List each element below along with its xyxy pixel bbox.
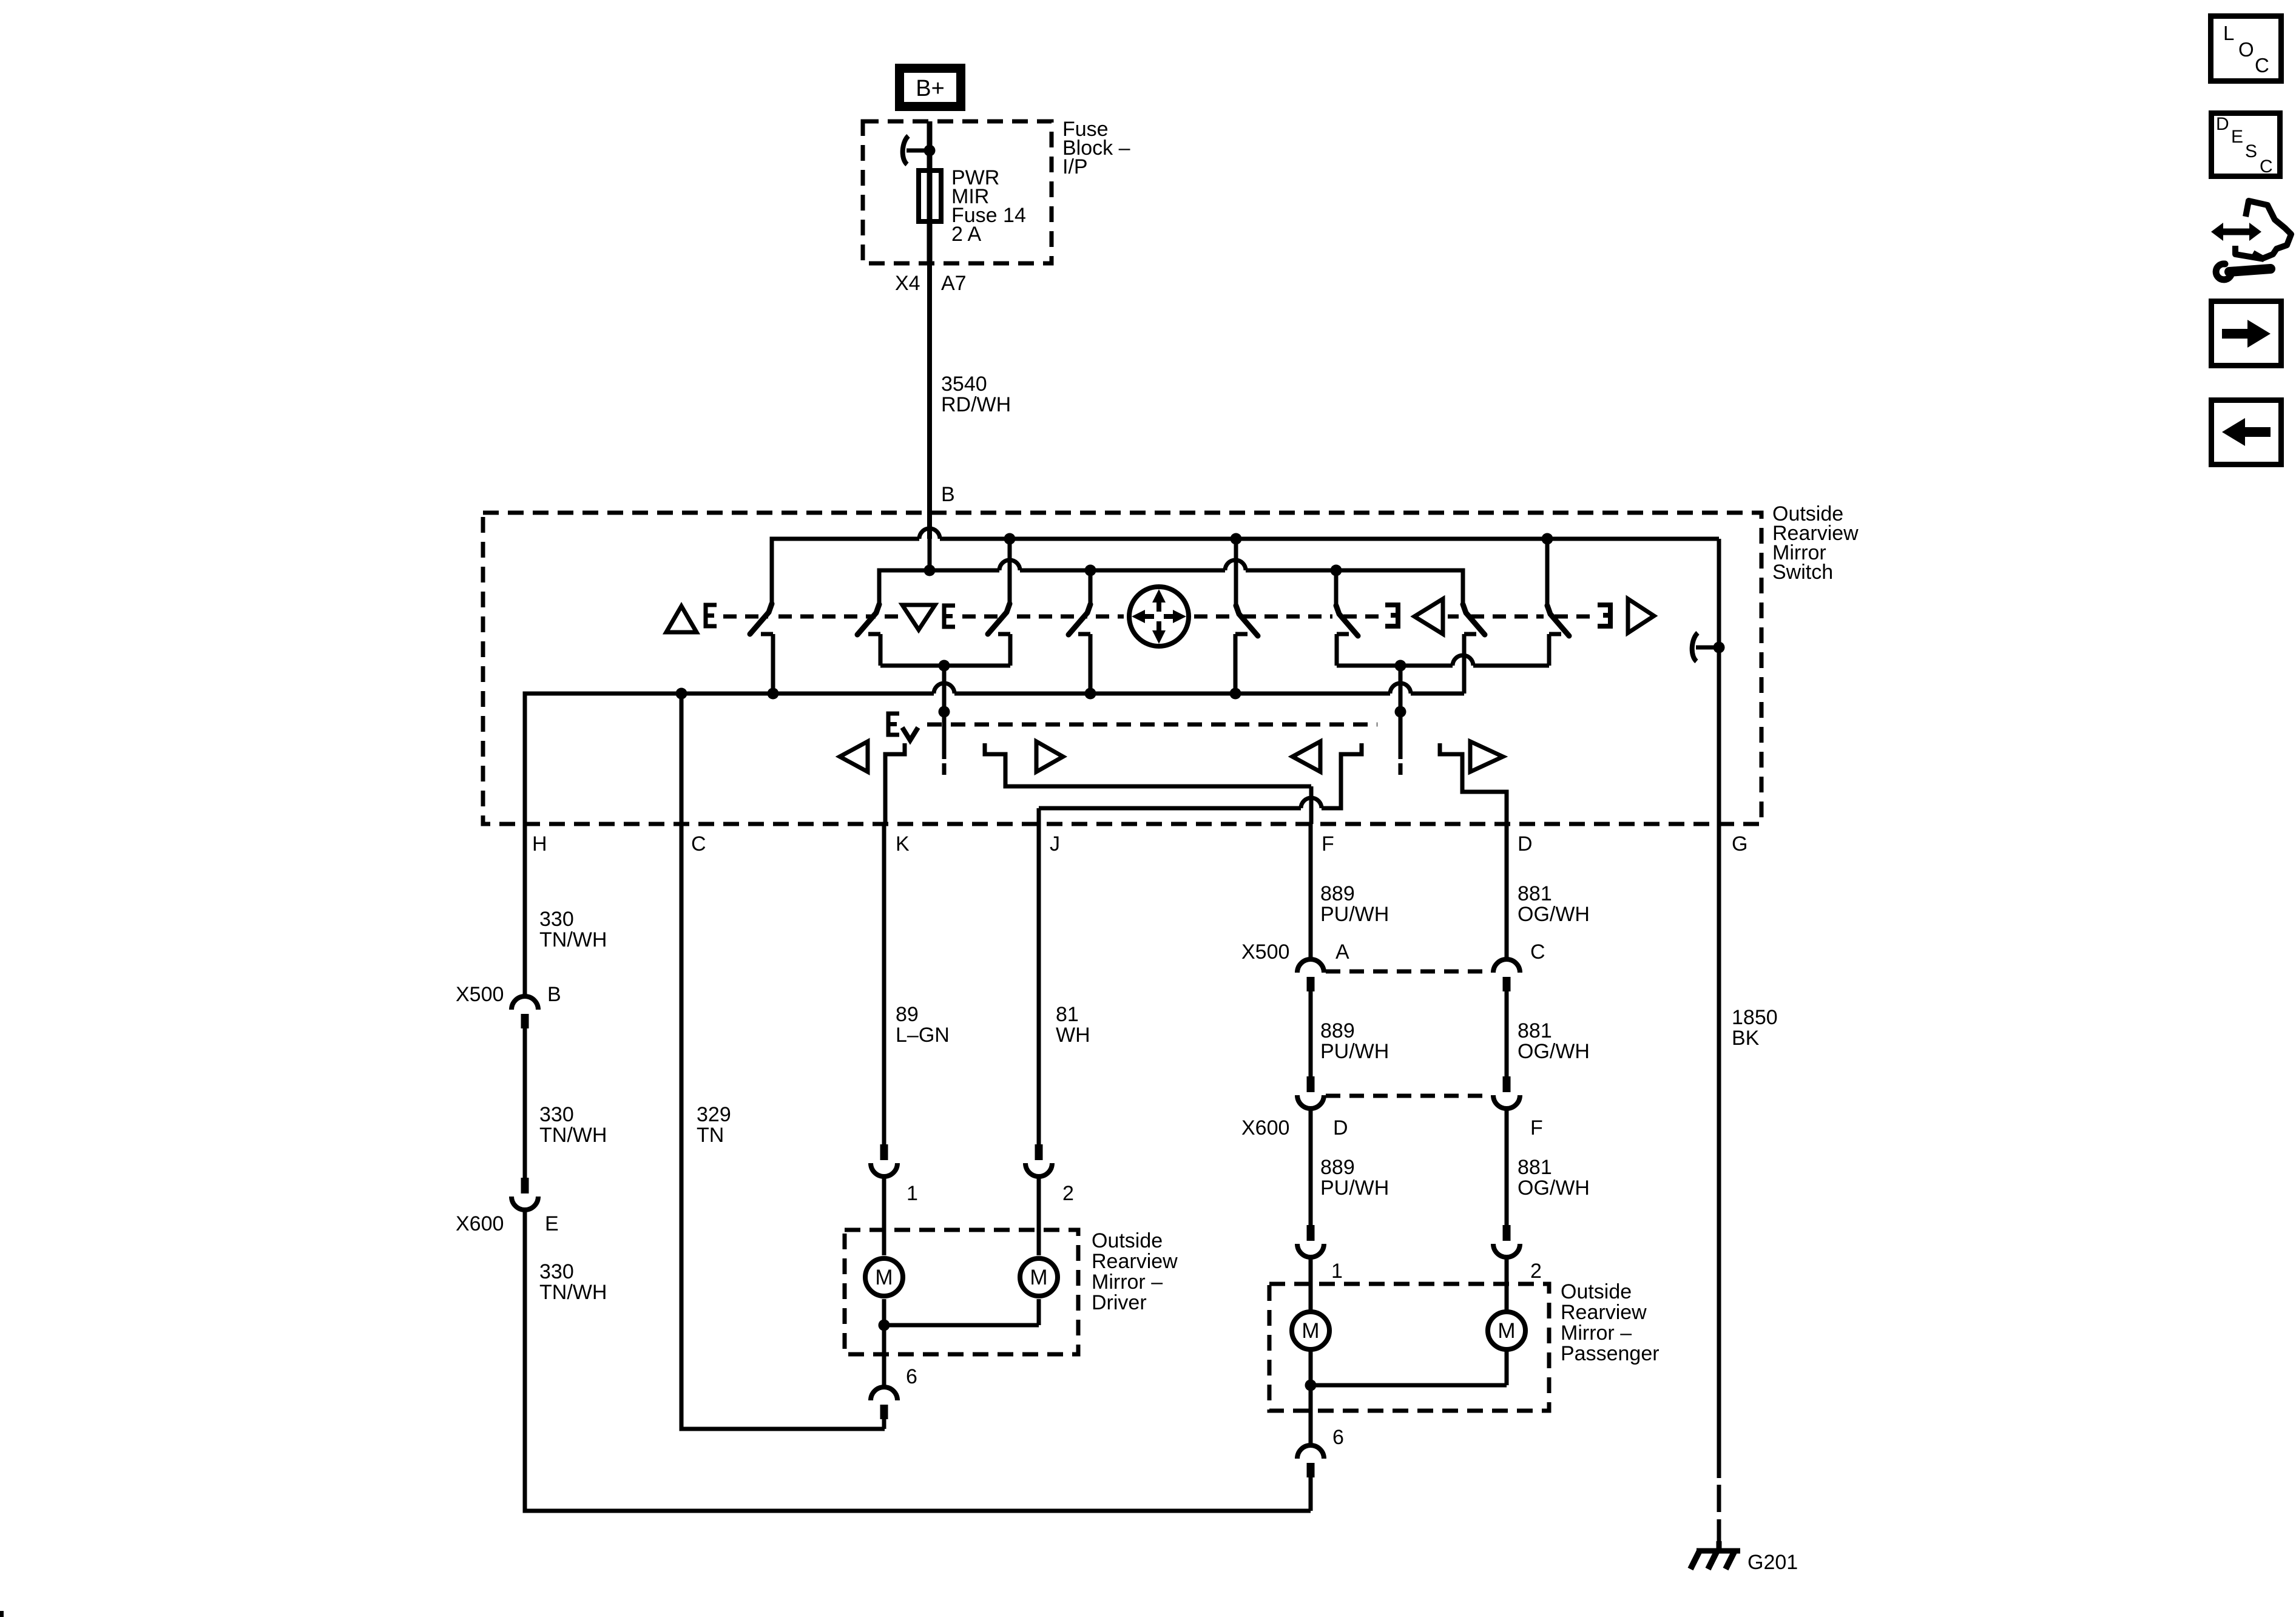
junction: B wire to second rail: [924, 539, 936, 576]
bottom rail wire: [525, 683, 1464, 824]
switch 3 (down group): [988, 604, 1010, 666]
connector X600 pin F: [1493, 1076, 1520, 1109]
passenger mirror connector pin 6: [1297, 1445, 1324, 1477]
connector X4 label: [895, 272, 920, 295]
svg-text:X600: X600: [1241, 1116, 1289, 1139]
pin C label: [1530, 940, 1545, 964]
wire to passenger motor 2: [1505, 1258, 1509, 1310]
svg-text:Rearview: Rearview: [1561, 1301, 1647, 1324]
pin 6 label (passenger): [1332, 1426, 1344, 1449]
X500 connector dashed link: [1326, 970, 1491, 974]
selector right-pair right contact to pin D: [1440, 743, 1507, 824]
driver mirror motor M1: [865, 1258, 903, 1296]
svg-text:TN/WH: TN/WH: [539, 1124, 607, 1147]
wire to driver mirror motor 2: [1037, 1177, 1041, 1255]
pin 1 label (passenger): [1331, 1260, 1343, 1283]
svg-text:WH: WH: [1056, 1024, 1090, 1047]
wire 1850 BK label: [1732, 1006, 1778, 1050]
switch 1 (up, left mirror vertical): [750, 604, 773, 694]
svg-text:PU/WH: PU/WH: [1320, 903, 1389, 926]
svg-text:B+: B+: [916, 76, 945, 101]
wire 3540 RD/WH label: [941, 373, 1011, 416]
wire pin6 passenger to 330 TN/WH: [1309, 1477, 1313, 1511]
svg-text:L–GN: L–GN: [896, 1024, 950, 1047]
driver mirror connector pin 1: [871, 1144, 897, 1176]
X600 label right: [1241, 1116, 1289, 1139]
wire 881 OG/WH label 3: [1518, 1156, 1590, 1200]
right actuator bracket: [1598, 605, 1610, 626]
svg-text:Switch: Switch: [1772, 561, 1833, 584]
svg-text:881: 881: [1518, 1156, 1552, 1179]
X500 label left: [456, 983, 504, 1006]
pin 2 label (driver): [1062, 1182, 1074, 1205]
switch box label: [1772, 502, 1859, 584]
svg-text:6: 6: [906, 1365, 917, 1388]
svg-text:G201: G201: [1747, 1551, 1798, 1574]
up actuator triangle: [666, 606, 697, 632]
svg-text:2: 2: [1530, 1260, 1542, 1283]
driver mirror connector pin 2: [1025, 1144, 1052, 1176]
wire 330 TN/WH lower: [525, 1210, 1311, 1511]
passenger mirror motor M1: [1292, 1312, 1329, 1349]
passenger mirror connector pin 1: [1297, 1225, 1324, 1257]
wire 89 L-GN label: [896, 1003, 950, 1047]
svg-text:Passenger: Passenger: [1561, 1342, 1660, 1365]
driver mirror pin 6 wire: [882, 1325, 886, 1386]
driver mirror motor M2: [1020, 1258, 1058, 1296]
svg-text:B: B: [941, 483, 955, 506]
svg-text:PU/WH: PU/WH: [1320, 1040, 1389, 1063]
switch 2 (down group): [857, 604, 880, 666]
DESC nav box: [2212, 113, 2280, 177]
switch 5: [1235, 606, 1258, 694]
switch 6: [1336, 606, 1358, 666]
svg-text:881: 881: [1518, 1019, 1552, 1042]
wire 330 TN/WH label 3: [539, 1260, 607, 1304]
wire 889 PU/WH lower: [1309, 1109, 1313, 1225]
svg-text:1: 1: [1331, 1260, 1343, 1283]
svg-text:I/P: I/P: [1062, 155, 1088, 178]
selector left triangle (driver): [840, 741, 868, 772]
svg-text:F: F: [1322, 832, 1334, 856]
svg-text:329: 329: [697, 1103, 731, 1126]
pin F label (X600): [1530, 1116, 1543, 1139]
right actuator triangle: [1628, 599, 1654, 633]
X600 connector dashed link: [1326, 1094, 1491, 1098]
pin E label: [545, 1212, 559, 1235]
4-way joystick symbol: [1129, 587, 1189, 646]
svg-text:D: D: [1518, 832, 1533, 856]
svg-text:S: S: [2245, 141, 2257, 161]
svg-text:2: 2: [1062, 1182, 1074, 1205]
svg-text:RD/WH: RD/WH: [941, 393, 1011, 416]
junction node in fuse block: [924, 145, 936, 157]
svg-text:330: 330: [539, 908, 574, 931]
svg-text:3540: 3540: [941, 373, 987, 396]
svg-text:881: 881: [1518, 882, 1552, 905]
pin 6 label (driver): [906, 1365, 917, 1388]
outside rearview mirror passenger dashed box: [1269, 1284, 1549, 1411]
page artifact dot: [0, 1611, 4, 1617]
pin C label: [691, 832, 706, 856]
svg-text:Outside: Outside: [1561, 1280, 1632, 1303]
X500 label right: [1241, 940, 1289, 964]
wire 329 TN label: [697, 1103, 731, 1147]
second rail junction dots: [1085, 565, 1342, 576]
LOC nav box: [2211, 16, 2281, 81]
wire 889 PU/WH label 3: [1320, 1156, 1389, 1200]
svg-text:C: C: [691, 832, 706, 856]
switch 8: [1547, 606, 1569, 666]
svg-text:330: 330: [539, 1103, 574, 1126]
wire 881 OG/WH label 1: [1518, 882, 1590, 926]
second rail wire: [879, 560, 1463, 606]
svg-text:C: C: [2260, 157, 2273, 177]
left-right switch pair bottom link: [1337, 655, 1549, 672]
up actuator detent E: [706, 605, 717, 626]
pin D label: [1518, 832, 1533, 856]
connector X500 pin A: [1297, 959, 1324, 991]
wire 881 OG/WH upper: [1505, 824, 1509, 959]
svg-text:J: J: [1050, 832, 1060, 856]
svg-text:X600: X600: [456, 1212, 504, 1235]
selector left triangle (passenger): [1292, 741, 1320, 772]
wire 330 TN/WH upper: [523, 824, 527, 996]
svg-text:L: L: [2223, 22, 2234, 44]
svg-text:H: H: [532, 832, 547, 856]
wire 889 PU/WH upper: [1309, 824, 1313, 959]
pin K label: [896, 832, 910, 856]
wire pin6 driver to 329 TN: [882, 1419, 886, 1429]
svg-text:81: 81: [1056, 1003, 1079, 1026]
switch mechanical linkage (dashed): [723, 615, 1598, 619]
pin D label (X600): [1333, 1116, 1348, 1139]
svg-text:G: G: [1732, 832, 1747, 856]
top bus junction dots: [1004, 533, 1553, 545]
drop wire to switch 8: [1545, 539, 1550, 607]
selector left-pair right contact: [985, 743, 1311, 786]
wire to passenger motor 1: [1309, 1258, 1313, 1310]
up-down switch pair bottom link: [880, 660, 1010, 672]
selector left-pair left contact to pin K: [885, 743, 905, 824]
driver mirror motor common link: [879, 1299, 1039, 1331]
svg-text:E: E: [2231, 127, 2243, 147]
bottom rail junction dots: [676, 688, 1241, 700]
selector right triangle (driver): [1036, 741, 1063, 772]
drop wire to switch 6: [1334, 570, 1339, 607]
driver mirror label: [1092, 1229, 1178, 1314]
wire 889 PU/WH middle: [1309, 991, 1313, 1076]
svg-text:A7: A7: [941, 272, 967, 295]
svg-text:D: D: [1333, 1116, 1348, 1139]
ground G201 label: [1747, 1551, 1798, 1574]
svg-text:PU/WH: PU/WH: [1320, 1176, 1389, 1200]
svg-text:1: 1: [907, 1182, 918, 1205]
wire 81 WH label: [1056, 1003, 1090, 1047]
selector tap wire left: [939, 666, 950, 775]
drop wire to switch 4: [1089, 570, 1093, 606]
pin F label: [1322, 832, 1334, 856]
svg-text:K: K: [896, 832, 910, 856]
wire from B+ into fuse block: [927, 121, 933, 168]
connector X500 pin C: [1493, 959, 1520, 991]
fuse block I/P dashed box: [863, 121, 1052, 263]
svg-text:Driver: Driver: [1092, 1291, 1147, 1314]
battery feed B+: [900, 69, 961, 107]
svg-text:D: D: [2216, 114, 2229, 134]
fuse PWR MIR Fuse 14 2 A: [919, 170, 941, 221]
connector X600 pin E: [512, 1178, 538, 1210]
left actuator bracket: [1385, 605, 1398, 626]
connector X600 pin D: [1297, 1076, 1324, 1109]
wire fuse to connector X4 pin A7: [927, 224, 933, 263]
svg-text:TN/WH: TN/WH: [539, 928, 607, 951]
wire 330 TN/WH label 2: [539, 1103, 607, 1147]
passenger mirror pin 6 wire: [1309, 1385, 1313, 1445]
svg-text:M: M: [1497, 1319, 1515, 1343]
svg-text:TN/WH: TN/WH: [539, 1281, 607, 1304]
ground path wire inside switch: [1714, 539, 1725, 824]
svg-text:TN: TN: [697, 1124, 724, 1147]
driver mirror connector pin 6: [871, 1387, 897, 1419]
wire 1850 BK: [1717, 824, 1721, 1478]
svg-text:M: M: [1030, 1266, 1047, 1289]
switch 7: [1463, 604, 1485, 694]
wire 3540 RD/WH: [927, 263, 932, 539]
svg-text:X4: X4: [895, 272, 920, 295]
svg-text:1850: 1850: [1732, 1006, 1778, 1029]
connector X500 pin B: [512, 996, 538, 1028]
svg-text:Rearview: Rearview: [1092, 1250, 1178, 1273]
wire 881 OG/WH lower: [1505, 1109, 1509, 1225]
passenger mirror motor M2: [1488, 1312, 1525, 1349]
svg-text:C: C: [2255, 54, 2269, 76]
svg-text:F: F: [1530, 1116, 1543, 1139]
svg-text:E: E: [545, 1212, 559, 1235]
wire pin J to right-pair left contact: [1039, 743, 1362, 824]
fuse value label: [951, 166, 1026, 246]
pin A7 label: [941, 272, 967, 295]
svg-text:M: M: [875, 1266, 893, 1289]
svg-text:C: C: [1530, 940, 1545, 964]
top bus wire (B feed inside switch): [772, 528, 1719, 605]
wire to pin F: [1309, 786, 1314, 824]
wire 889 PU/WH label 2: [1320, 1019, 1389, 1063]
pin 1 label (driver): [907, 1182, 918, 1205]
selector actuator E with down arrow: [888, 714, 918, 740]
ground G201: [1690, 1537, 1747, 1569]
down actuator triangle: [902, 605, 935, 630]
wire to driver mirror motor 1: [882, 1177, 886, 1255]
svg-text:889: 889: [1320, 1019, 1355, 1042]
left actuator triangle: [1414, 599, 1443, 634]
next page arrow box: [2212, 302, 2281, 366]
down actuator detent E: [944, 606, 955, 627]
fuse block label: [1062, 118, 1130, 178]
passenger mirror motor common link: [1305, 1351, 1507, 1391]
selector linkage (dashed): [927, 723, 1377, 727]
repair instructions hand icon: [2211, 201, 2291, 280]
wire 330 TN/WH label 1: [539, 908, 607, 951]
pin A label: [1335, 940, 1349, 964]
svg-text:A: A: [1335, 940, 1349, 964]
switch ground clip symbol: [1692, 633, 1719, 661]
svg-text:889: 889: [1320, 1156, 1355, 1179]
svg-text:2 A: 2 A: [951, 223, 981, 246]
X600 label left: [456, 1212, 504, 1235]
pin 2 label (passenger): [1530, 1260, 1542, 1283]
svg-text:89: 89: [896, 1003, 919, 1026]
pin H label: [532, 832, 547, 856]
pin G label: [1732, 832, 1747, 856]
wire 89 L-GN: [882, 824, 886, 1144]
svg-text:OG/WH: OG/WH: [1518, 1176, 1590, 1200]
svg-text:X500: X500: [1241, 940, 1289, 964]
drop wire to switch 3: [1008, 539, 1012, 605]
wire 330 TN/WH middle: [523, 1028, 527, 1178]
wire 81 WH: [1037, 824, 1041, 1144]
svg-text:330: 330: [539, 1260, 574, 1283]
outside rearview mirror driver dashed box: [845, 1230, 1078, 1354]
svg-text:O: O: [2238, 38, 2254, 61]
svg-text:OG/WH: OG/WH: [1518, 903, 1590, 926]
fuse block clip symbol: [903, 136, 930, 164]
drop wire to switch 5: [1234, 539, 1238, 607]
svg-text:X500: X500: [456, 983, 504, 1006]
selector tap wire right: [1395, 666, 1406, 775]
svg-text:M: M: [1302, 1319, 1319, 1343]
pin B label: [547, 983, 561, 1006]
passenger mirror label: [1561, 1280, 1660, 1365]
svg-text:Outside: Outside: [1092, 1229, 1163, 1252]
passenger mirror connector pin 2: [1493, 1225, 1520, 1257]
wire 881 OG/WH label 2: [1518, 1019, 1590, 1063]
svg-text:BK: BK: [1732, 1027, 1760, 1050]
wire 889 PU/WH label 1: [1320, 882, 1389, 926]
wire 329 TN: [681, 694, 885, 1429]
pin J label: [1050, 832, 1060, 856]
svg-text:B: B: [547, 983, 561, 1006]
selector right triangle (passenger): [1470, 741, 1503, 772]
svg-text:OG/WH: OG/WH: [1518, 1040, 1590, 1063]
pin B label: [941, 483, 955, 506]
svg-text:889: 889: [1320, 882, 1355, 905]
switch 4: [1069, 604, 1090, 694]
wire 881 OG/WH middle: [1505, 991, 1509, 1076]
svg-text:Mirror –: Mirror –: [1092, 1271, 1163, 1294]
svg-text:Mirror –: Mirror –: [1561, 1322, 1632, 1345]
previous page arrow box: [2212, 400, 2281, 465]
svg-text:6: 6: [1332, 1426, 1344, 1449]
outside rearview mirror switch dashed box: [483, 513, 1761, 824]
wire 1850 BK dashed tail: [1717, 1485, 1721, 1541]
